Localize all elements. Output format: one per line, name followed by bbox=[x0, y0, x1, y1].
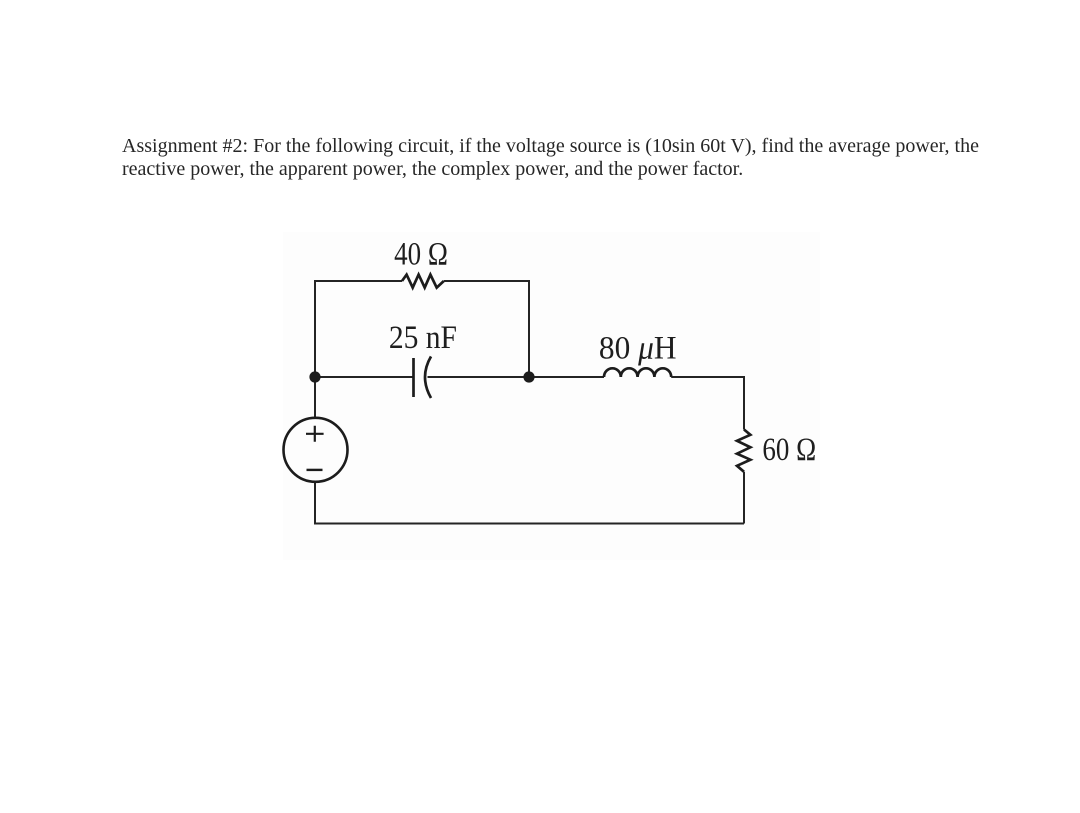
wire left vertical upper bbox=[314, 280, 316, 377]
wire left vertical lower bbox=[314, 482, 316, 525]
voltage source V circle bbox=[284, 418, 348, 482]
voltage source minus sign bbox=[307, 469, 323, 471]
inductor L 80uH bbox=[604, 368, 671, 377]
wire middle right segment bbox=[671, 376, 744, 378]
svg-text:25 nF: 25 nF bbox=[389, 319, 457, 356]
wire top-right segment bbox=[444, 280, 529, 282]
circuit image background bbox=[283, 232, 820, 560]
wire middle center segment bbox=[428, 376, 605, 378]
assignment prompt text bbox=[122, 135, 1042, 181]
wire right vertical upper bbox=[528, 280, 530, 377]
wire top-left segment bbox=[315, 280, 402, 282]
capacitor C 25nF right plate (arc) bbox=[425, 356, 431, 398]
wire middle left segment bbox=[315, 376, 414, 378]
wire node A to source top bbox=[314, 377, 316, 419]
svg-text:40 Ω: 40 Ω bbox=[394, 236, 448, 272]
wire bottom bbox=[315, 523, 744, 525]
node B (right junction dot) bbox=[523, 371, 534, 382]
wire right vertical upper segment bbox=[743, 376, 745, 430]
node A (left junction dot) bbox=[309, 371, 320, 382]
svg-text:60 Ω: 60 Ω bbox=[762, 432, 816, 468]
resistor R 40ohm zigzag bbox=[402, 275, 444, 288]
wire right vertical lower segment bbox=[743, 472, 745, 524]
svg-text:80 μH: 80 μH bbox=[599, 330, 677, 366]
capacitor C 25nF left plate bbox=[412, 358, 415, 397]
resistor R 60ohm zigzag bbox=[737, 430, 750, 472]
voltage source plus sign bbox=[306, 426, 324, 442]
